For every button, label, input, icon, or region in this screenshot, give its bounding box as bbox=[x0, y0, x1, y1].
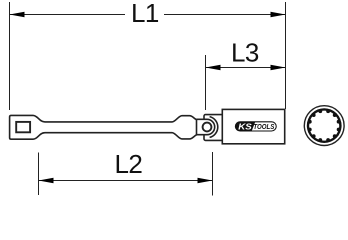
dimension L3 extension line left bbox=[205, 55, 207, 110]
dimension L1 extension line right bbox=[285, 2, 287, 109]
extension bar body (head, shaft, yoke) bbox=[10, 115, 199, 139]
socket end view bore bbox=[309, 111, 339, 141]
fork (yoke nose) bbox=[197, 119, 215, 134]
dimension L3 line bbox=[206, 67, 286, 69]
dimension L3 arrow right bbox=[271, 65, 286, 70]
socket 12-point teeth bbox=[308, 109, 341, 142]
socket body bbox=[222, 109, 284, 143]
joint pin bbox=[203, 123, 212, 132]
dimension L2 extension line left bbox=[38, 153, 40, 196]
dimension L2 line bbox=[39, 180, 213, 182]
svg-text:L3: L3 bbox=[231, 37, 259, 67]
dimension L2 extension line right bbox=[212, 152, 214, 196]
dimension L1 line left segment bbox=[10, 14, 126, 16]
dimension L1 extension line left bbox=[9, 2, 11, 110]
bell arc bbox=[210, 117, 218, 138]
drive square hole bbox=[16, 122, 30, 132]
svg-text:KS: KS bbox=[238, 121, 252, 131]
dimension L3 arrow left bbox=[206, 65, 221, 70]
dimension L1 arrow right bbox=[271, 12, 286, 17]
dimension L2 arrow right bbox=[198, 178, 213, 183]
KS TOOLS logo pill bbox=[235, 121, 276, 131]
socket end view black ring bbox=[307, 108, 342, 143]
svg-text:L1: L1 bbox=[131, 0, 159, 28]
dimension L2 arrow left bbox=[39, 178, 54, 183]
svg-text:L2: L2 bbox=[114, 149, 142, 179]
joint housing bbox=[204, 115, 223, 141]
svg-text:TOOLS: TOOLS bbox=[253, 122, 274, 131]
dimension L1 arrow left bbox=[10, 12, 25, 17]
dimension L1 line right segment bbox=[164, 14, 286, 16]
socket end view outer circle bbox=[304, 106, 344, 146]
